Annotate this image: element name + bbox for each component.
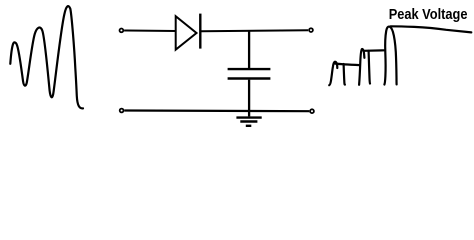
- wire diode cathode to output terminal: [202, 30, 309, 31]
- terminal BL (input -): [120, 109, 124, 113]
- wire capacitor to ground: [248, 80, 250, 117]
- wire input to diode anode: [124, 30, 176, 33]
- diode D1 triangle: [176, 16, 197, 50]
- ground bar 1: [236, 116, 261, 118]
- ground bar 3: [246, 125, 252, 127]
- output waveform rise 1: [329, 62, 337, 86]
- node junction wire to capacitor C1: [248, 31, 250, 69]
- diode D1 cathode bar: [199, 14, 201, 49]
- capacitor C1 bottom plate: [228, 77, 271, 79]
- terminal TL (input +): [120, 29, 124, 33]
- output drop segment 2: [369, 51, 370, 84]
- capacitor C1 top plate: [228, 68, 271, 70]
- output drop segment 1: [344, 64, 345, 85]
- output hold line 1: [335, 64, 360, 66]
- output waveform peak arch: [384, 27, 396, 85]
- bottom wire (return): [124, 109, 309, 112]
- terminal TR (output +): [309, 28, 313, 32]
- svg-text:Peak Voltage: Peak Voltage: [389, 6, 468, 23]
- input sine waveform: [10, 6, 83, 108]
- output waveform rise 2: [359, 49, 364, 85]
- output hold line 2: [363, 49, 384, 52]
- ground bar 2: [240, 120, 257, 122]
- terminal BR (output -): [310, 109, 314, 113]
- output peak-hold flat line: [391, 26, 472, 32]
